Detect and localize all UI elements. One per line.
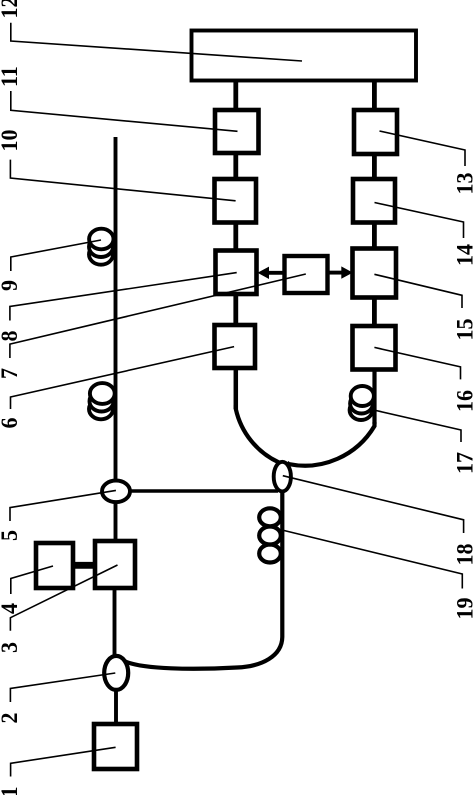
wire between coupler 5 and box 3 xyxy=(114,501,118,542)
svg-text:5: 5 xyxy=(0,530,22,541)
wire right chain: box 15 to box 16 xyxy=(372,297,377,327)
svg-text:14: 14 xyxy=(452,244,474,266)
coil 9: three stacked loops on main line (upper) xyxy=(89,229,114,265)
svg-text:3: 3 xyxy=(0,642,22,653)
block 6: left chain fourth box xyxy=(215,325,256,368)
wire left chain: rect 12 to box 11 xyxy=(233,80,238,111)
svg-text:16: 16 xyxy=(452,390,474,412)
svg-text:8: 8 xyxy=(0,331,22,342)
wire left chain: box 11 to box 10 xyxy=(233,152,238,180)
block 13: right chain first box xyxy=(354,110,397,154)
wire left chain curve into coupler 18 xyxy=(236,405,279,462)
coupler 2: vertical ellipse on main line xyxy=(104,656,128,690)
leader 11 xyxy=(11,91,238,131)
block 1: bottom box on main line xyxy=(94,724,137,769)
wire left chain: box 6 down to curve xyxy=(234,367,239,409)
svg-text:15: 15 xyxy=(452,319,474,341)
leader 10 xyxy=(10,160,235,201)
leader 19 xyxy=(282,530,462,589)
leader 12 xyxy=(11,23,302,61)
svg-text:10: 10 xyxy=(0,130,22,152)
leader 1 xyxy=(11,747,116,776)
arrowhead left (points left into box 8) xyxy=(258,267,270,279)
leader 16 xyxy=(374,347,460,379)
svg-text:2: 2 xyxy=(0,713,22,724)
svg-text:7: 7 xyxy=(0,368,22,379)
coil 19: three circles beside vertical wire below coupler 18 xyxy=(259,508,281,562)
wire right chain: rect 12 to box 13 xyxy=(372,80,377,111)
leader 17 xyxy=(376,411,461,443)
block 7: middle box between chains xyxy=(285,256,328,293)
svg-text:18: 18 xyxy=(452,544,474,566)
wire right chain curve into coupler 18 xyxy=(287,422,375,466)
wire thick connector between box 4 and box 3 xyxy=(71,562,97,569)
leader 8 xyxy=(10,273,237,321)
svg-text:4: 4 xyxy=(0,603,22,614)
block 8: left chain third box xyxy=(216,251,257,295)
wire between coupler 2 and box 1 xyxy=(114,689,118,725)
wire right chain: box 13 to box 14 xyxy=(372,153,377,180)
svg-text:11: 11 xyxy=(0,66,22,87)
coupler 5: ellipse on main line with side port xyxy=(102,481,130,503)
block 11: left chain first box xyxy=(215,110,259,153)
svg-text:6: 6 xyxy=(0,418,22,429)
leader 6 xyxy=(11,347,235,409)
leader 18 xyxy=(283,476,464,533)
leader 13 xyxy=(380,131,466,166)
leader 5 xyxy=(10,490,116,521)
svg-text:17: 17 xyxy=(452,452,474,474)
wire main vertical fiber line (node at x=115.5) xyxy=(114,137,118,481)
block 4: side box left of box 3 xyxy=(36,543,73,588)
leader 2 xyxy=(10,673,115,702)
block 12: pump/control long rectangle at top xyxy=(192,31,417,81)
svg-text:12: 12 xyxy=(0,0,22,19)
leader 4 xyxy=(11,566,53,594)
leader 7 xyxy=(10,274,306,358)
leader 14 xyxy=(375,203,464,239)
arrowhead right (points right into box 15) xyxy=(341,266,353,278)
leader 9 xyxy=(11,240,101,271)
coupler 18: narrow vertical ellipse joining chains xyxy=(274,462,291,492)
svg-text:19: 19 xyxy=(452,598,474,620)
leader 3 xyxy=(10,565,117,631)
wire left chain: box 8 to box 6 xyxy=(233,293,238,326)
wire from coupler 18 bottom down and curving left to coupler 2 xyxy=(121,490,283,669)
block 3: box on main line xyxy=(95,541,135,588)
block 10: left chain second box xyxy=(215,179,257,223)
wire horizontal from coupler 5 to coupler 18 xyxy=(128,489,278,492)
svg-text:1: 1 xyxy=(0,787,22,795)
svg-text:13: 13 xyxy=(452,173,474,195)
block 15: right chain third box xyxy=(353,249,397,298)
svg-text:9: 9 xyxy=(0,280,22,291)
wire between box 3 and coupler 2 xyxy=(113,588,117,657)
block 16: right chain fourth box xyxy=(353,326,396,370)
arrow from middle box 7 to right box 15 xyxy=(327,271,343,275)
wire right chain: box 14 to box 15 xyxy=(372,222,377,249)
coil 17: three stacked loops on right chain xyxy=(350,386,374,420)
coil 6-lower: three stacked loops on main line (lower) xyxy=(89,383,115,419)
arrow from middle box 7 to left box 8 xyxy=(266,271,285,275)
wire left chain: box 10 to box 8 xyxy=(233,221,238,252)
block 14: right chain second box xyxy=(353,179,395,223)
leader 15 xyxy=(374,274,462,308)
wire right chain: box 16 down through coil to curve xyxy=(372,369,376,424)
